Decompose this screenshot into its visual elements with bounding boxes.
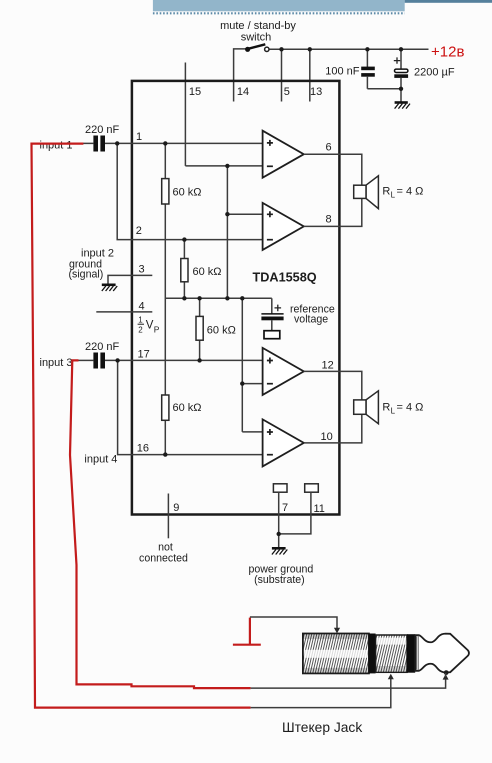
reference voltage cell [261, 305, 283, 339]
svg-text:12: 12 [322, 360, 334, 372]
wire: to op4 non-inverting input [242, 431, 263, 433]
node: upper-chain/rail junction [225, 296, 229, 300]
wire to sleeve [250, 617, 337, 630]
svg-text:= 4 Ω: = 4 Ω [397, 402, 424, 414]
svg-text:6: 6 [326, 142, 332, 154]
label RL = 4 Ohm (upper) [382, 186, 423, 200]
svg-text:220 nF: 220 nF [85, 341, 120, 353]
arrow into sleeve [334, 628, 340, 634]
wires: left-side input network [60, 143, 263, 454]
jack plug: tip [415, 634, 469, 673]
capacitor C3 100 nF [361, 49, 401, 89]
svg-text:input 4: input 4 [84, 454, 117, 466]
jack tip neck shading lines [417, 636, 419, 671]
jack plug: insulator ring 2 [407, 634, 415, 673]
jack tip junction dot [444, 670, 449, 675]
switch S1 (mute/stand-by) [245, 44, 269, 52]
svg-text:L: L [391, 407, 396, 416]
wire pin 8 to speaker [304, 198, 362, 226]
svg-text:R: R [382, 186, 390, 198]
arrow into ring [388, 674, 394, 680]
pin 7 pad and wire [273, 484, 287, 548]
svg-text:2: 2 [136, 225, 142, 237]
label 1/2 Vp [138, 316, 160, 335]
label: mute / stand-by switch [220, 20, 296, 44]
ground (signal) symbol [102, 285, 117, 291]
wire: pin15 to op1 inverting input [185, 165, 263, 167]
wire pin 12 to speaker [304, 371, 362, 400]
wire: supply rail right of switch to +12v [269, 48, 429, 50]
svg-text:input 3: input 3 [40, 357, 73, 369]
svg-text:14: 14 [237, 86, 249, 98]
pin 11 pad and wire [279, 484, 319, 534]
pin number labels left [136, 131, 150, 455]
svg-text:60 kΩ: 60 kΩ [207, 325, 236, 337]
label not connected [139, 542, 188, 565]
svg-text:Штекер Jack: Штекер Jack [282, 720, 362, 735]
red wire: sleeve stub [249, 618, 251, 645]
arrow into tip [443, 674, 449, 680]
input 1 lead [60, 142, 93, 144]
wire pin1 line [105, 142, 263, 144]
wire pin 10 to speaker [304, 414, 362, 443]
svg-text:2: 2 [138, 325, 143, 334]
svg-text:switch: switch [241, 32, 272, 44]
red wire: input 3 drop [70, 360, 251, 688]
svg-text:5: 5 [284, 86, 290, 98]
wire: center rail Vp/2 [165, 297, 271, 299]
jack plug: sleeve barrel [303, 634, 369, 674]
op-amp U4 [263, 419, 304, 466]
node: R3/rail junction [197, 296, 201, 300]
pin 15 stub [184, 63, 186, 166]
jack plug: ring contact [376, 635, 407, 672]
wire pin 6 to speaker [304, 154, 362, 185]
node: cap bottoms junction [399, 87, 403, 91]
ground (power, substrate) [272, 548, 287, 554]
node: 2200uF supply junction [399, 47, 403, 51]
svg-text:V: V [146, 320, 154, 332]
svg-text:voltage: voltage [294, 313, 328, 325]
svg-text:TDA1558Q: TDA1558Q [253, 270, 317, 284]
wire: R2 column [183, 240, 185, 299]
node: op1 inverting junction [225, 164, 229, 168]
ground (top, supply) [395, 103, 410, 109]
output wires right side [304, 154, 362, 443]
svg-text:mute / stand-by: mute / stand-by [220, 20, 296, 32]
svg-text:60 kΩ: 60 kΩ [173, 402, 202, 414]
svg-text:= 4 Ω: = 4 Ω [397, 186, 424, 198]
node: 100nF supply junction [365, 47, 369, 51]
wire: R1/R4 column [164, 143, 166, 454]
label RL = 4 Ohm (lower) [382, 402, 423, 416]
svg-text:16: 16 [137, 443, 149, 455]
jack connection wires [250, 617, 446, 708]
pin number labels top [189, 86, 322, 98]
node: input1 coupling junction [115, 141, 119, 145]
node: op3 inverting junction [240, 381, 244, 385]
node: R2/rail junction [182, 296, 186, 300]
svg-text:4: 4 [139, 301, 145, 313]
svg-text:60 kΩ: 60 kΩ [173, 187, 202, 199]
node: pin1/R1 junction [163, 141, 167, 145]
resistor R1 60k [162, 179, 169, 204]
svg-text:60 kΩ: 60 kΩ [193, 266, 222, 278]
label power ground (substrate) [249, 564, 314, 587]
wire: to op3 inverting input [242, 383, 263, 385]
svg-text:13: 13 [310, 86, 322, 98]
pin number labels right [321, 142, 334, 444]
pin 9 stub [167, 494, 169, 539]
node: pin2/R2 junction [182, 237, 186, 241]
wire to tip [251, 678, 446, 688]
speaker LS2 [354, 391, 379, 424]
svg-text:9: 9 [173, 502, 179, 514]
wire: upper chain vertical [226, 166, 228, 298]
svg-text:2200 µF: 2200 µF [414, 67, 455, 79]
wire: R3 column [199, 298, 201, 360]
pin 3 stub and signal ground drop [108, 275, 152, 283]
svg-text:7: 7 [282, 502, 288, 514]
browser bar right strip [405, 0, 492, 3]
wire input3 node to pin16 line [118, 360, 264, 454]
label reference voltage [290, 303, 335, 325]
capacitor C4 2200 uF [394, 49, 408, 102]
svg-text:1: 1 [136, 131, 142, 143]
label ground (signal) [69, 259, 104, 281]
svg-text:input 1: input 1 [40, 140, 73, 152]
wire to ring [251, 679, 391, 708]
pin 4 stub [96, 311, 152, 313]
wire pin17 line [105, 359, 263, 361]
node: op2 non-inverting junction [225, 212, 229, 216]
wire input1 node to pin2 line [117, 143, 263, 239]
browser title bar fragment [153, 0, 405, 13]
node: pin 5 supply junction [279, 47, 283, 51]
svg-text:P: P [154, 325, 160, 335]
node: power ground junction [277, 532, 281, 536]
wire: supply rail left segment (pin14 stub top to switch pole) [185, 49, 428, 166]
svg-text:L: L [391, 191, 396, 200]
node: pin17/R3 junction [197, 358, 201, 362]
svg-text:220 nF: 220 nF [85, 124, 120, 136]
pin 5 stub [281, 49, 283, 101]
IC body TDA1558Q outline [132, 81, 340, 515]
svg-text:15: 15 [189, 86, 201, 98]
speaker LS1 [354, 176, 379, 209]
red wire: input 1 strike and left drop [32, 144, 261, 708]
svg-text:100 nF: 100 nF [325, 66, 360, 78]
op-amp U2 [263, 203, 304, 250]
input 3 lead [79, 359, 94, 361]
node: pin 13 supply junction [308, 47, 312, 51]
svg-text:R: R [382, 402, 390, 414]
svg-text:+12в: +12в [431, 44, 464, 61]
svg-text:8: 8 [326, 214, 332, 226]
jack plug: insulator ring 1 [369, 634, 376, 674]
svg-text:(substrate): (substrate) [254, 574, 305, 586]
node: input3 coupling junction [115, 358, 119, 362]
svg-text:10: 10 [321, 431, 333, 443]
node: lower-chain/rail junction [240, 296, 244, 300]
resistor R4 60k [162, 395, 169, 420]
svg-text:(signal): (signal) [69, 269, 104, 281]
capacitor C1 220 nF (input 1) [93, 136, 105, 152]
svg-text:17: 17 [138, 349, 150, 361]
op-amp U1 [263, 131, 304, 178]
wire: lower chain vertical [241, 298, 243, 432]
internal wires [165, 143, 271, 454]
resistor R3 60k [196, 316, 203, 340]
pin 13 stub [309, 49, 311, 101]
op-amp U3 [263, 348, 304, 395]
wire: to op2 non-inverting input [227, 213, 263, 215]
node: pin16/R4 junction [163, 452, 167, 456]
capacitor C2 220 nF (input 3) [93, 353, 105, 369]
svg-text:1: 1 [138, 316, 143, 325]
wire: rail to reference cap [271, 298, 273, 313]
svg-text:connected: connected [139, 553, 188, 565]
svg-text:11: 11 [314, 503, 325, 515]
resistor R2 60k [181, 259, 188, 282]
wire tip dot to arrow [445, 673, 447, 677]
svg-text:3: 3 [139, 264, 145, 276]
